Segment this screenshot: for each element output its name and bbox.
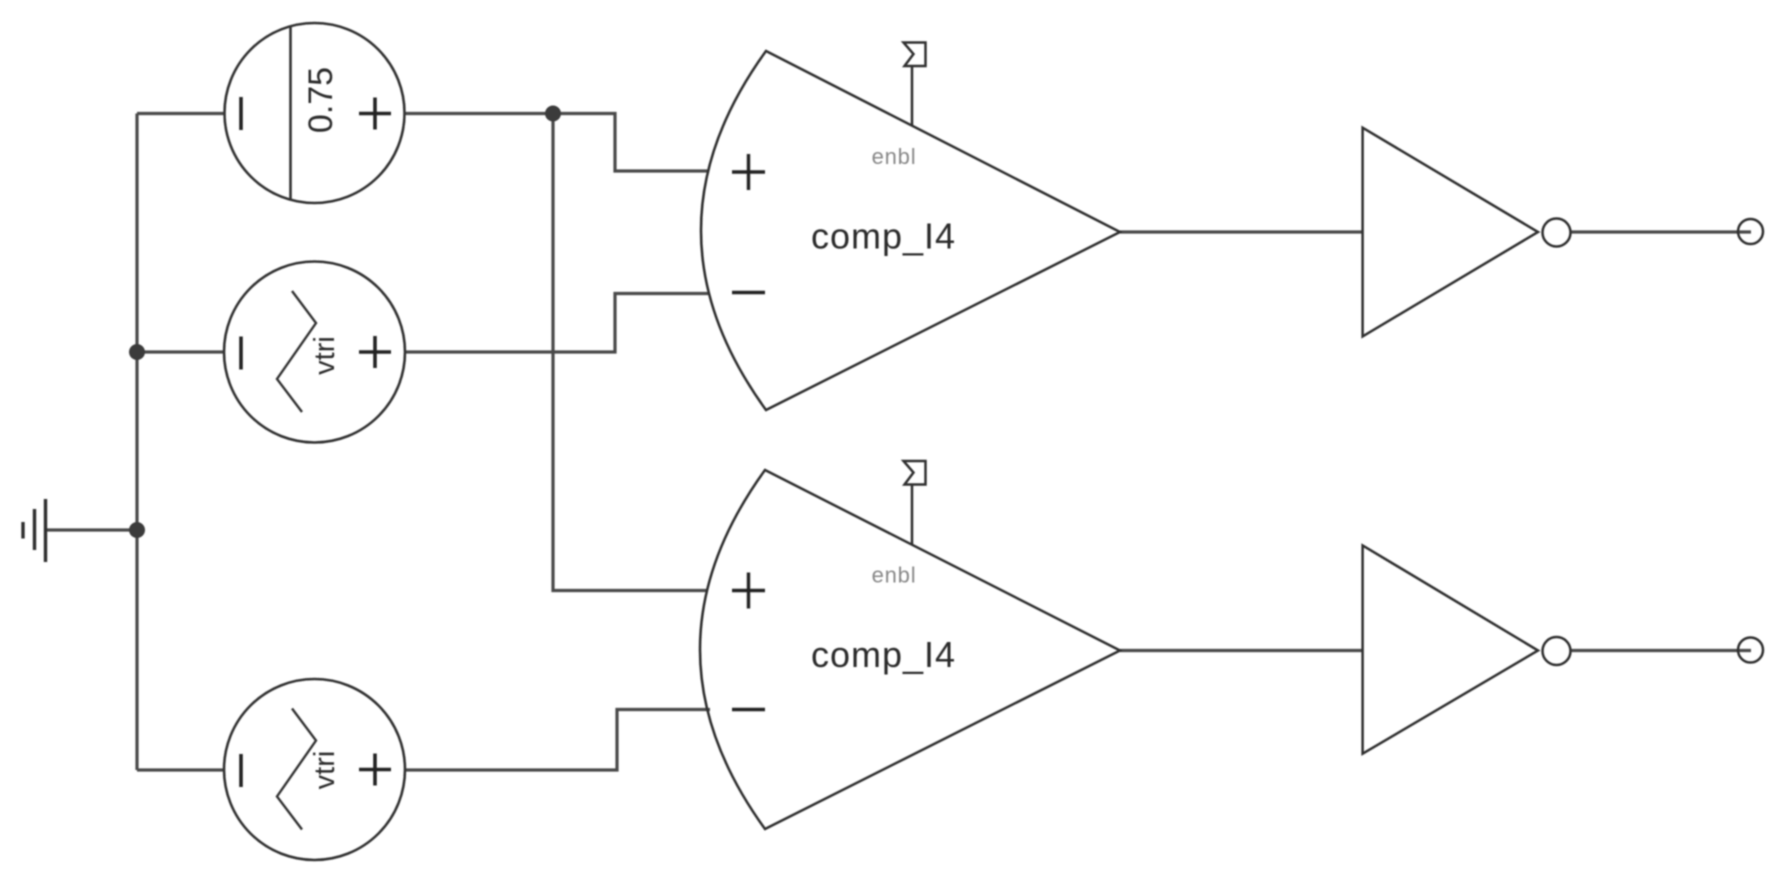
svg-text:comp_I4: comp_I4 [811,216,956,257]
svg-text:comp_I4: comp_I4 [811,634,956,675]
svg-text:0.75: 0.75 [302,67,340,133]
svg-text:enbl: enbl [872,563,917,588]
svg-text:vtri: vtri [309,336,341,375]
svg-text:enbl: enbl [872,144,917,169]
svg-text:vtri: vtri [309,751,341,790]
